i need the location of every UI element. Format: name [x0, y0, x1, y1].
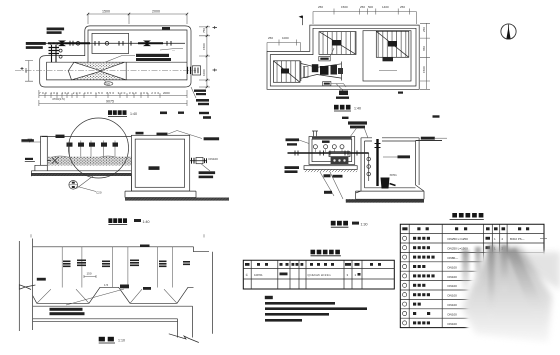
svg-text:1:10: 1:10 [118, 338, 125, 342]
svg-text:1:30: 1:30 [361, 222, 368, 226]
left stub tick [21, 67, 24, 70]
svg-text:650: 650 [422, 46, 426, 51]
svg-text:500: 500 [368, 5, 373, 9]
clear water tank [131, 135, 189, 191]
junction symbols [120, 285, 129, 289]
row1 right cells [486, 237, 491, 240]
riser pipe dark [376, 139, 378, 186]
filter cell A hatched [319, 32, 356, 55]
pipe run with valves [30, 42, 185, 44]
leaders from base [320, 172, 343, 199]
svg-text:1:40: 1:40 [143, 220, 150, 224]
riser pipe assembly [52, 45, 57, 63]
title section 3 [108, 218, 112, 223]
labels inside [324, 174, 331, 177]
panel dividers [62, 247, 173, 288]
left level labels [47, 28, 65, 31]
pump base platform [304, 166, 357, 170]
left vertical dim 900 [25, 61, 33, 82]
venturi mixing cone [68, 62, 126, 80]
svg-text:DN100: DN100 [448, 275, 458, 279]
svg-text:DN100: DN100 [448, 322, 458, 326]
inlet pipe top right [416, 140, 443, 142]
submersible pump [381, 178, 390, 189]
inner bottom line [47, 62, 187, 80]
vent stub [312, 131, 318, 137]
svg-text:DN100: DN100 [448, 294, 458, 298]
svg-text:DN80—: DN80— [448, 256, 459, 260]
svg-text:1:40: 1:40 [130, 112, 137, 116]
table1 title [311, 250, 316, 255]
small top label [140, 245, 150, 247]
tank inner wall right chamber [88, 30, 187, 80]
title detail [99, 337, 105, 342]
right outlet stub [188, 67, 191, 74]
top dimension line [88, 14, 187, 24]
bottom dimension lines [39, 90, 187, 98]
left labels [286, 138, 300, 141]
plan inner wall [270, 28, 416, 86]
tank outer outline [40, 26, 191, 87]
settling tank top edge [42, 136, 132, 138]
svg-text:250: 250 [422, 27, 426, 32]
base lines [33, 305, 193, 307]
svg-text:1500: 1500 [102, 10, 110, 14]
drain valve cross [25, 157, 58, 163]
svg-text:DN100: DN100 [448, 265, 458, 269]
svg-text:1400: 1400 [382, 5, 389, 9]
svg-text:1500: 1500 [422, 66, 426, 73]
gate label box [319, 56, 330, 61]
filter cell B hatched [376, 31, 409, 57]
svg-text:250: 250 [268, 36, 273, 40]
svg-text:250: 250 [360, 5, 365, 9]
svg-text:250: 250 [400, 5, 405, 9]
svg-text:4700(1:5): 4700(1:5) [52, 97, 65, 101]
plan outer wall [267, 25, 419, 89]
top labels and leaders [136, 132, 144, 135]
svg-text:DN100: DN100 [448, 303, 458, 307]
svg-text:DN100: DN100 [448, 284, 458, 288]
svg-text:C20: C20 [105, 82, 110, 86]
title section 1 [108, 110, 112, 115]
wet well base [356, 185, 424, 199]
top leader bold label [348, 121, 367, 124]
svg-text:2000: 2000 [152, 10, 160, 14]
left outlet arrow [19, 285, 35, 290]
svg-text:700 400 200 200 400 150 850 30: 700 400 200 200 400 150 850 300 300 300 … [39, 91, 159, 95]
small 4| [398, 92, 403, 94]
svg-text:1500: 1500 [341, 5, 348, 9]
break symbol [169, 334, 199, 343]
row2 right cells [486, 246, 491, 249]
pump room outer [309, 137, 355, 165]
left foundation slab [31, 171, 131, 174]
right dimension line [199, 26, 210, 87]
svg-text:1500: 1500 [202, 43, 206, 50]
table2 grid [400, 224, 544, 327]
outlet stub right [190, 160, 207, 162]
svg-text:B302 P6—: B302 P6— [510, 237, 525, 241]
svg-text:DN250 L=1250: DN250 L=1250 [448, 237, 469, 241]
svg-text:900: 900 [24, 68, 28, 73]
level mark [21, 141, 40, 143]
table2 rows [448, 237, 469, 326]
svg-text:150: 150 [87, 272, 92, 276]
table1 grid [243, 260, 394, 289]
equipment box [92, 33, 129, 53]
table2 title [452, 213, 457, 218]
right side small notes [194, 90, 206, 92]
svg-text:Q=42m/h H=13m: Q=42m/h H=13m [308, 273, 332, 277]
wet well walls [361, 138, 419, 191]
svg-text:1:5: 1:5 [104, 283, 109, 287]
filter cell C hatched [273, 61, 300, 83]
tank base slab [125, 191, 196, 197]
small label tank top [162, 27, 170, 30]
weld symbol clusters [63, 261, 71, 263]
venturi plan channel [301, 61, 346, 87]
svg-text:750: 750 [202, 28, 206, 33]
svg-text:XP01: XP01 [390, 173, 398, 177]
svg-text:250: 250 [318, 5, 323, 9]
svg-text:DN100: DN100 [448, 312, 458, 316]
left wall [41, 136, 48, 165]
hopper profile [33, 287, 194, 303]
centreline [15, 69, 196, 71]
svg-text:2000: 2000 [163, 91, 170, 95]
title plan [334, 105, 339, 110]
svg-text:1:40: 1:40 [354, 107, 361, 111]
plate dividers [69, 141, 115, 162]
material note [50, 308, 83, 311]
table2 headers [402, 227, 407, 230]
overflow label [398, 155, 411, 158]
detail bubble [69, 181, 78, 190]
outer wall lines [19, 239, 32, 332]
top slab line [33, 247, 209, 252]
valve circles [313, 145, 344, 152]
svg-text:9075: 9075 [106, 100, 114, 104]
drain note text [136, 54, 169, 57]
detail callout circle [69, 118, 129, 178]
storage tank inner room [363, 31, 411, 81]
benchmark flag [302, 16, 304, 25]
top dim [313, 9, 416, 25]
bottom leader symbol [336, 84, 343, 91]
title section 4 [331, 221, 336, 226]
svg-text:10P01: 10P01 [254, 273, 263, 277]
gravel bed [48, 156, 132, 159]
inner wall left low chamber [47, 62, 187, 80]
svg-text:1000: 1000 [282, 36, 289, 40]
svg-text:C20: C20 [96, 191, 102, 195]
suction pipe [288, 152, 369, 154]
left dim [267, 40, 301, 52]
svg-text:DN100: DN100 [209, 157, 219, 161]
table1 headers [245, 263, 250, 266]
right dim [420, 23, 430, 89]
pump unit [329, 152, 350, 157]
svg-text:1000: 1000 [202, 69, 206, 76]
svg-text:①: ① [246, 273, 249, 277]
